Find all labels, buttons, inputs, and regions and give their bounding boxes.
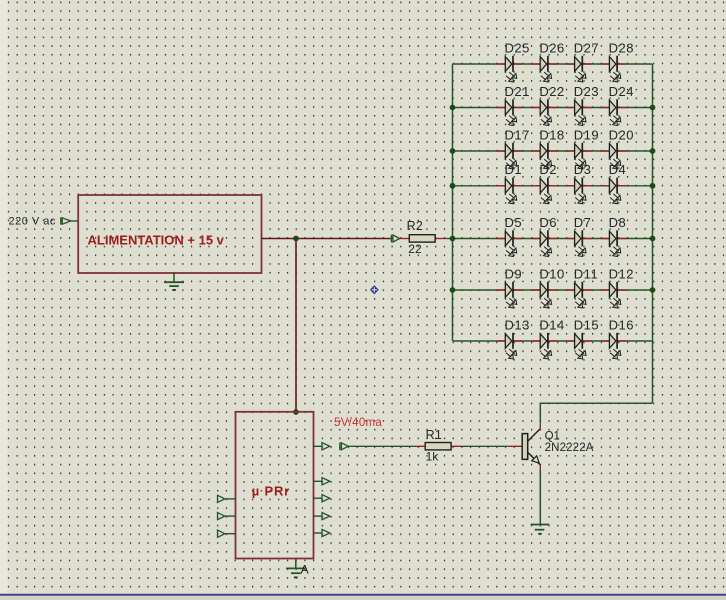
svg-text:R1: R1 bbox=[426, 428, 443, 442]
LED D26 bbox=[531, 56, 557, 82]
wire LED row 2 bbox=[453, 107, 653, 109]
LED D20 bbox=[600, 143, 626, 169]
LED D1 bbox=[496, 178, 522, 204]
svg-text:D2: D2 bbox=[539, 162, 557, 177]
LED D3 bbox=[566, 178, 592, 204]
LED D5 bbox=[496, 230, 522, 256]
wire left rail of LED matrix bbox=[452, 64, 454, 341]
uPRr left pin 1 bbox=[218, 495, 236, 502]
svg-text:D19: D19 bbox=[574, 127, 599, 142]
LED D18 bbox=[531, 143, 557, 169]
LED D10 bbox=[531, 282, 557, 308]
svg-text:D13: D13 bbox=[505, 317, 530, 332]
svg-text:D21: D21 bbox=[505, 84, 530, 99]
LED D19 bbox=[566, 143, 592, 169]
svg-text:D18: D18 bbox=[539, 127, 564, 142]
node left rail row 3 bbox=[450, 148, 456, 154]
terminal arrow to R2 bbox=[391, 235, 399, 243]
svg-text:A: A bbox=[301, 563, 309, 577]
wire LED row 1 bbox=[453, 63, 653, 65]
wire bottom of right rail to Q1 collector bbox=[540, 403, 652, 424]
wire terminal to ALIMENTATION bbox=[71, 220, 79, 222]
node right rail row 2 bbox=[650, 105, 656, 111]
svg-text:D11: D11 bbox=[574, 266, 598, 281]
transistor Q1 2N2222A bbox=[508, 424, 540, 470]
svg-text:D17: D17 bbox=[505, 127, 530, 142]
ground (ALIMENTATION) bbox=[164, 273, 184, 290]
svg-text:R2: R2 bbox=[407, 219, 424, 233]
LED D22 bbox=[531, 99, 557, 125]
LED D27 bbox=[566, 56, 592, 82]
wire +15V down to uPRr bbox=[295, 239, 297, 412]
LED D13 bbox=[496, 333, 522, 359]
LED D23 bbox=[566, 99, 592, 125]
svg-text:D15: D15 bbox=[574, 317, 599, 332]
LED D15 bbox=[566, 333, 592, 359]
LED D16 bbox=[600, 333, 626, 359]
status-bar divider bbox=[0, 594, 726, 596]
origin marker bbox=[370, 285, 379, 294]
svg-text:D8: D8 bbox=[609, 215, 627, 230]
svg-text:D22: D22 bbox=[539, 84, 564, 99]
svg-text:D12: D12 bbox=[609, 266, 634, 281]
svg-text:D14: D14 bbox=[539, 317, 564, 332]
svg-text:D1: D1 bbox=[505, 162, 523, 177]
svg-text:D25: D25 bbox=[505, 40, 530, 55]
svg-text:D20: D20 bbox=[609, 127, 634, 142]
input terminal 220 V ac bbox=[9, 216, 71, 228]
wire terminal to R1 bbox=[348, 445, 416, 447]
wire right rail of LED matrix bbox=[652, 64, 654, 403]
node left rail row 2 bbox=[450, 105, 456, 111]
wire LED row 7 bbox=[453, 340, 653, 342]
LED D4 bbox=[600, 178, 626, 204]
node right rail row 5 bbox=[650, 236, 656, 242]
svg-text:D4: D4 bbox=[609, 162, 627, 177]
uPRr right pin 4 bbox=[314, 513, 330, 520]
svg-text:D28: D28 bbox=[609, 40, 634, 55]
uPRr left pin 2 bbox=[218, 513, 236, 520]
junction node +15V bbox=[293, 236, 299, 242]
LED D14 bbox=[531, 333, 557, 359]
svg-text:D6: D6 bbox=[539, 215, 557, 230]
LED D25 bbox=[496, 56, 522, 82]
wire R1 to Q1 base bbox=[461, 445, 509, 447]
svg-text:1k: 1k bbox=[426, 450, 440, 464]
node right rail row 3 bbox=[650, 148, 656, 154]
wire LED row 3 bbox=[453, 150, 653, 152]
terminal arrow from uPRr to R1 bbox=[340, 442, 348, 450]
LED D17 bbox=[496, 143, 522, 169]
LED D11 bbox=[566, 282, 592, 308]
LED D28 bbox=[600, 56, 626, 82]
ground (uPRr) bbox=[286, 559, 306, 578]
LED D6 bbox=[531, 230, 557, 256]
wire LED row 4 bbox=[453, 185, 653, 187]
junction node at uPRr top bbox=[293, 409, 299, 415]
svg-text:ALIMENTATION + 15 v: ALIMENTATION + 15 v bbox=[88, 233, 225, 248]
svg-text:D24: D24 bbox=[609, 84, 634, 99]
subcircuit ALIMENTATION + 15 v bbox=[78, 195, 261, 273]
LED D8 bbox=[600, 230, 626, 256]
svg-text:2N2222A: 2N2222A bbox=[545, 442, 594, 454]
wire LED row 5 bbox=[453, 238, 653, 240]
svg-text:D9: D9 bbox=[505, 266, 523, 281]
LED D21 bbox=[496, 99, 522, 125]
resistor R1 bbox=[416, 443, 461, 450]
ground (Q1 emitter) bbox=[531, 525, 550, 534]
svg-text:220 V ac: 220 V ac bbox=[9, 216, 56, 228]
node right rail row 6 bbox=[650, 287, 656, 293]
uPRr left pin 3 bbox=[218, 530, 236, 537]
svg-text:22: 22 bbox=[408, 242, 422, 256]
node right rail row 4 bbox=[650, 183, 656, 189]
svg-text:D7: D7 bbox=[574, 215, 592, 230]
svg-text:D16: D16 bbox=[609, 317, 634, 332]
uPRr right pin 1 bbox=[314, 443, 330, 450]
wire +15V rail (box to R2 terminal) bbox=[262, 238, 391, 240]
uPRr right pin 2 bbox=[314, 478, 330, 485]
LED D2 bbox=[531, 178, 557, 204]
uPRr right pin 3 bbox=[314, 495, 330, 502]
svg-text:µ PRr: µ PRr bbox=[252, 484, 290, 499]
LED D7 bbox=[566, 230, 592, 256]
svg-text:D26: D26 bbox=[539, 40, 564, 55]
subcircuit uPRr bbox=[236, 412, 314, 559]
LED D12 bbox=[600, 282, 626, 308]
svg-text:D5: D5 bbox=[505, 215, 523, 230]
wire LED row 6 bbox=[453, 289, 653, 291]
node left rail row 6 bbox=[450, 287, 456, 293]
svg-text:D3: D3 bbox=[574, 162, 592, 177]
svg-text:D10: D10 bbox=[539, 266, 564, 281]
wire Q1 emitter to ground bbox=[539, 470, 541, 524]
LED D24 bbox=[600, 99, 626, 125]
svg-text:D27: D27 bbox=[574, 40, 599, 55]
svg-text:D23: D23 bbox=[574, 84, 599, 99]
node left rail row 4 bbox=[450, 183, 456, 189]
LED D9 bbox=[496, 282, 522, 308]
uPRr right pin 5 bbox=[314, 529, 330, 536]
node left rail row 5 bbox=[450, 236, 456, 242]
svg-text:5V/40ma: 5V/40ma bbox=[334, 417, 382, 429]
resistor R2 bbox=[400, 235, 453, 242]
